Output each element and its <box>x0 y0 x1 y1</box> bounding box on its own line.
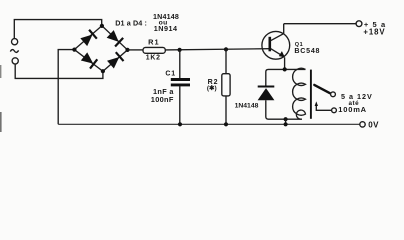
diode D3 bottom-left of bridge <box>80 52 97 69</box>
svg-text:0V: 0V <box>368 120 379 129</box>
svg-text:D1 a D4 :: D1 a D4 : <box>115 18 147 27</box>
wire bottom input to bridge bottom corner <box>15 64 103 78</box>
node bridge left corner <box>72 48 76 52</box>
svg-text:1N914: 1N914 <box>154 24 178 33</box>
svg-text:100mA: 100mA <box>338 105 367 114</box>
diode D1 top-left of bridge <box>80 30 97 47</box>
diode D4 bottom-right of bridge <box>107 52 124 69</box>
relay moving-contact lead with arrow <box>316 105 331 110</box>
diode D2 top-right of bridge <box>106 30 123 47</box>
diode D5 1N4148 flyback <box>258 87 275 101</box>
transistor Q1 circle <box>262 31 290 59</box>
wire R2 top lead <box>225 49 227 73</box>
node R2 on rail <box>224 122 228 126</box>
wire combo junction down to rail <box>285 119 287 124</box>
node junction R2 <box>224 47 228 51</box>
resistor R1 body <box>143 47 165 53</box>
terminal 0V <box>360 122 365 127</box>
node bridge right corner <box>125 48 129 52</box>
svg-text:BC548: BC548 <box>294 47 320 55</box>
transistor Q1 emitter line with arrow <box>271 49 285 70</box>
svg-text:R1: R1 <box>148 38 160 47</box>
input terminal lower <box>12 58 18 64</box>
svg-text:1K2: 1K2 <box>146 54 161 61</box>
relay core bar <box>310 70 312 119</box>
svg-text:1N4148: 1N4148 <box>235 103 259 110</box>
wire collector to +V terminal <box>284 23 357 25</box>
input terminal upper <box>12 39 18 45</box>
transistor Q1 collector line <box>271 24 284 41</box>
node emitter junction <box>283 67 287 71</box>
wire R2 bottom lead <box>225 96 227 124</box>
arrow head up <box>315 101 318 106</box>
terminal +V <box>356 21 362 27</box>
node bottom combo junction <box>284 117 288 121</box>
wire emitter node to relay top <box>266 69 306 86</box>
wire C1 bottom lead <box>179 86 181 124</box>
node on rail below combo <box>284 122 288 126</box>
node bridge top corner <box>100 24 104 28</box>
node junction R1/C1 <box>178 48 182 52</box>
resistor R2 body <box>222 74 230 96</box>
node bridge bottom corner <box>101 69 105 73</box>
transistor Q1 base bar <box>268 37 271 52</box>
AC symbol ~ <box>10 50 18 53</box>
relay contact terminal lower <box>332 108 337 113</box>
svg-text:+18V: +18V <box>363 28 385 37</box>
wire 0V bottom rail <box>58 123 359 125</box>
relay contact arm <box>314 85 330 93</box>
svg-text:(✱): (✱) <box>207 84 217 92</box>
bridge frame <box>74 26 127 72</box>
wire bridge left corner to 0V rail <box>58 50 74 125</box>
capacitor C1 plates <box>171 80 190 85</box>
wire R1 to transistor base <box>165 49 269 50</box>
relay coil K1 <box>293 68 306 119</box>
node C1 on rail <box>178 122 182 126</box>
svg-text:100nF: 100nF <box>151 95 174 104</box>
svg-text:C1: C1 <box>165 70 176 77</box>
scan artifact left edge upper <box>0 65 1 78</box>
wire D5 bottom lead to bottom wire <box>266 100 302 119</box>
scan artifact left edge lower <box>0 112 2 132</box>
relay contact terminal upper <box>331 92 336 97</box>
wire bridge right corner to R1 <box>128 49 144 51</box>
wire top from input terminal to bridge top <box>14 20 101 39</box>
wire C1 top lead <box>179 50 181 78</box>
